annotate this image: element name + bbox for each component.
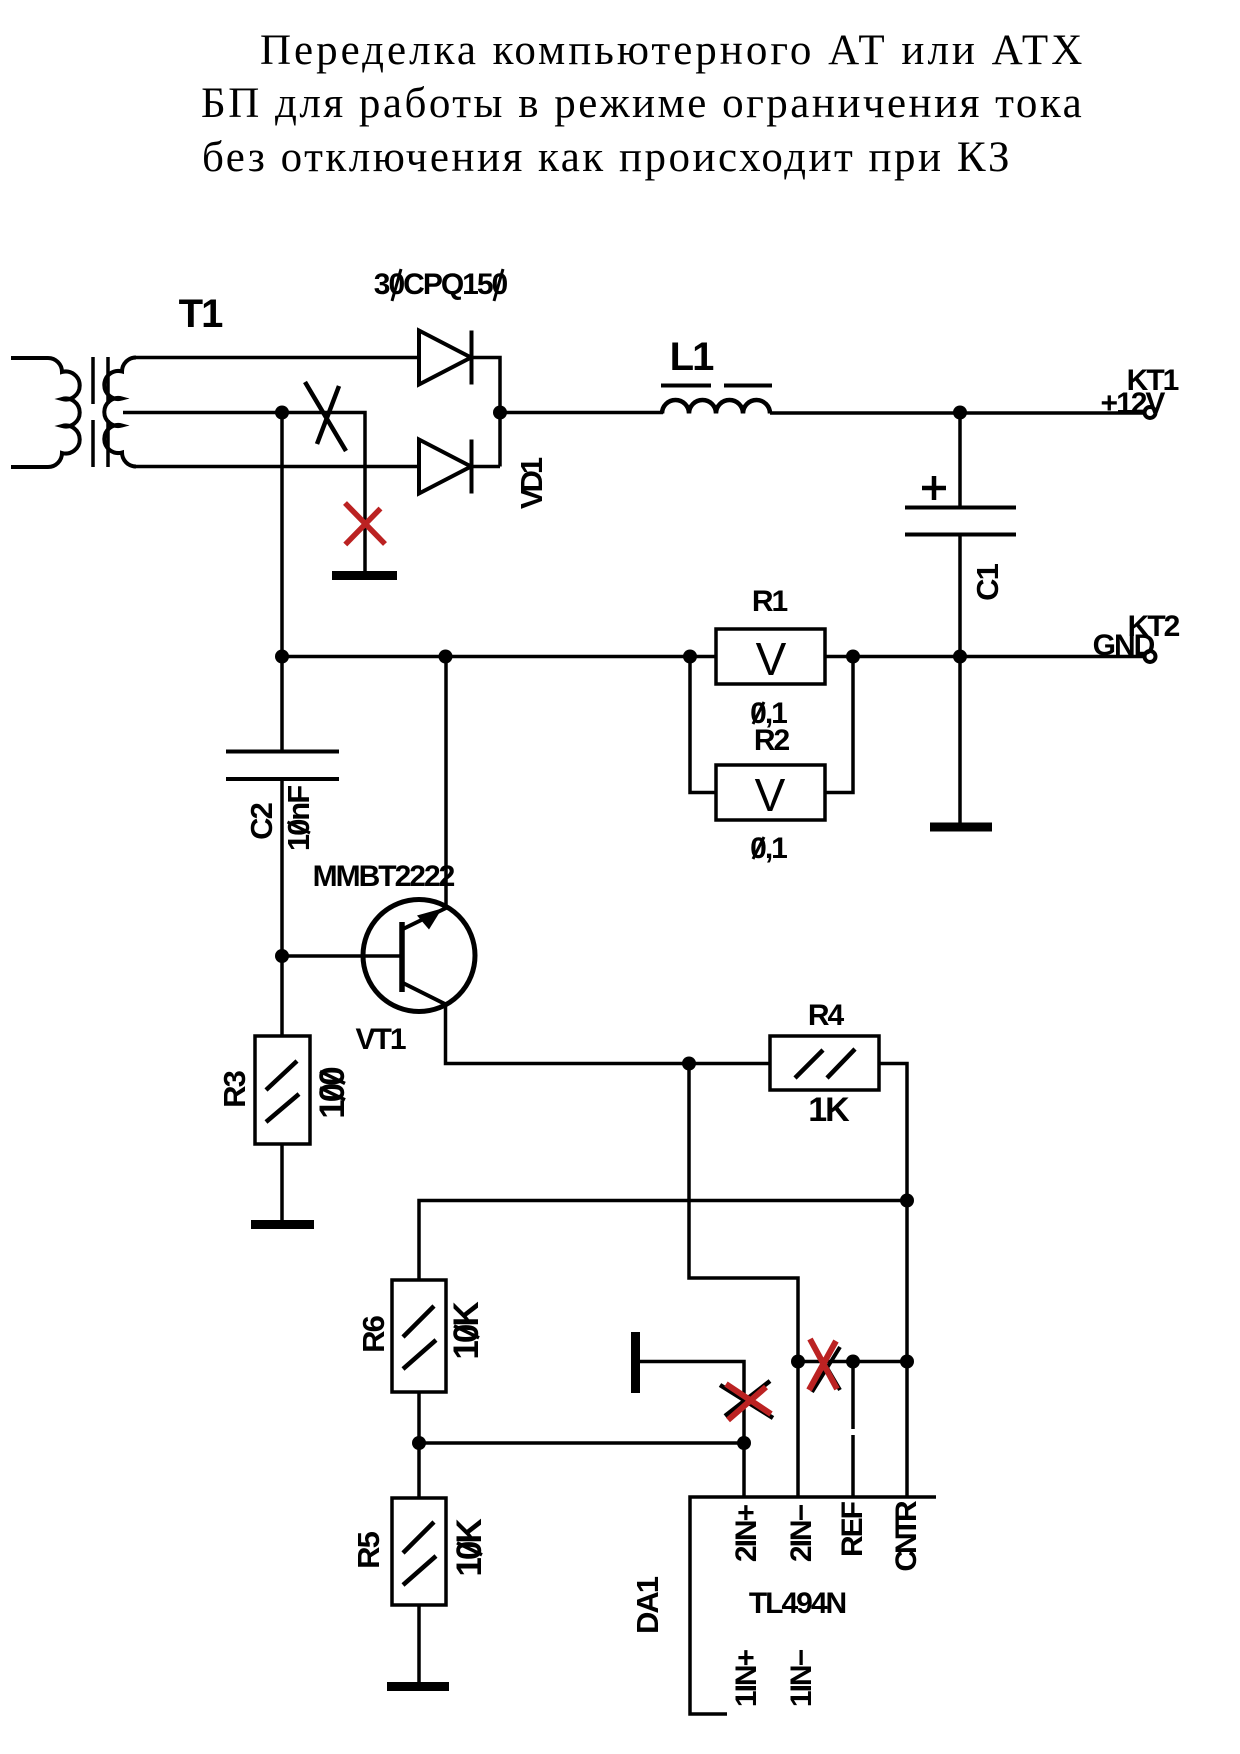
L1 core bars: [661, 384, 772, 388]
resistor R4: [770, 1036, 879, 1090]
node +12V rail / C1 top: [953, 406, 967, 420]
svg-text:VD1: VD1: [514, 457, 549, 509]
pin label 1IN+: [730, 1649, 763, 1707]
transformer T1 primary winding: [11, 358, 80, 467]
wire C1 bottom to ground: [958, 535, 962, 824]
resistor R2: [716, 765, 825, 820]
svg-text:1K: 1K: [808, 1091, 850, 1129]
wire R6 top: [419, 1201, 907, 1281]
svg-text:1IN−: 1IN−: [785, 1649, 818, 1707]
wire collector up: [444, 657, 448, 909]
ground under R3: [251, 1220, 314, 1229]
node 2IN-: [791, 1355, 805, 1369]
svg-text:R3: R3: [217, 1070, 252, 1107]
node R6 top wire joint: [900, 1194, 914, 1208]
svg-text:0,1: 0,1: [750, 832, 787, 865]
node R6-R5: [412, 1436, 426, 1450]
IC DA1 TL494N box: [690, 1497, 936, 1714]
ground under R5: [387, 1682, 449, 1691]
node 2IN+: [737, 1436, 751, 1450]
label VD1: [514, 457, 549, 509]
red X on center tap ground wire: [345, 503, 385, 545]
wire R6 to R5 junction: [417, 1392, 421, 1498]
svg-text:V: V: [756, 633, 787, 685]
transistor VT1: [363, 900, 475, 1012]
svg-text:L1: L1: [670, 335, 714, 379]
wire 2IN+ pin: [742, 1443, 746, 1497]
svg-text:R1: R1: [752, 585, 788, 618]
wire CNTR pin: [905, 1362, 909, 1498]
pin label 2IN-: [785, 1504, 818, 1562]
wire C2 to base/R3: [280, 779, 284, 1036]
svg-text:C1: C1: [970, 563, 1005, 600]
black X on 2IN+ ground wire: [720, 1381, 773, 1418]
capacitor C2: [280, 657, 284, 752]
svg-text:R4: R4: [808, 999, 845, 1032]
svg-text:VT1: VT1: [355, 1023, 405, 1056]
wire emitter down: [446, 1003, 771, 1064]
svg-text:V: V: [755, 769, 786, 821]
pin label REF: [836, 1501, 869, 1557]
svg-text:CNTR: CNTR: [890, 1500, 923, 1572]
wire R2 parallel right: [825, 657, 853, 793]
node base: [275, 949, 289, 963]
title: [201, 27, 1085, 181]
svg-text:2IN+: 2IN+: [730, 1504, 763, 1562]
terminal KT2: [1145, 651, 1156, 662]
svg-text:T1: T1: [179, 292, 223, 336]
svg-text:R6: R6: [356, 1315, 391, 1352]
svg-text:Переделка компьютерного АТ или: Переделка компьютерного АТ или АТХ: [260, 27, 1085, 74]
resistor R1: [716, 629, 825, 684]
transformer T1 secondary winding: [104, 358, 136, 467]
wire center tap: [123, 413, 365, 572]
wire ground to 2IN+ column: [640, 1362, 744, 1444]
svg-text:REF: REF: [836, 1501, 869, 1557]
wire junction to 2IN+: [419, 1441, 744, 1445]
pin label 1IN-: [785, 1649, 818, 1707]
wire L1 to KT1: [770, 411, 1145, 415]
terminal KT1: [1145, 407, 1156, 418]
node center tap: [275, 406, 289, 420]
wire R3 to ground: [280, 1144, 284, 1220]
inductor L1: [662, 400, 770, 414]
resistor R6: [392, 1280, 446, 1392]
svg-text:MMBT2222: MMBT2222: [313, 860, 455, 893]
node GND-R1 left: [683, 650, 697, 664]
red X on 2IN+ ground wire: [726, 1384, 771, 1420]
svg-text:DA1: DA1: [630, 1576, 665, 1634]
ground sideways near IC: [631, 1332, 640, 1393]
svg-text:C2: C2: [244, 803, 279, 839]
svg-text:R5: R5: [351, 1531, 386, 1568]
node REF: [846, 1355, 860, 1369]
wire center tap down: [280, 413, 284, 657]
red X on 2IN- REF segment: [809, 1339, 837, 1390]
svg-text:+12V: +12V: [1101, 387, 1166, 420]
wire R5 to ground: [417, 1605, 421, 1682]
wire REF pin: [851, 1362, 855, 1498]
svg-text:без отключения как происходит: без отключения как происходит при КЗ: [202, 134, 1012, 181]
resistor R5: [392, 1498, 446, 1605]
C1 plus sign: [922, 476, 946, 500]
pin label 2IN+: [730, 1504, 763, 1562]
svg-text:R2: R2: [754, 724, 790, 757]
slashes through zeros of 30CPQ150: [392, 269, 503, 301]
ground under center tap: [332, 571, 397, 580]
svg-text:TL494N: TL494N: [749, 1587, 846, 1620]
wire 2IN- pin: [796, 1362, 800, 1498]
svg-text:GND: GND: [1093, 629, 1155, 662]
svg-text:2IN−: 2IN−: [785, 1504, 818, 1562]
black X on 2IN- REF segment: [812, 1344, 840, 1392]
black X on center tap wire: [305, 382, 346, 451]
label DA1: [630, 1576, 665, 1634]
node diode output: [493, 406, 507, 420]
C1 label: [970, 563, 1005, 600]
ground under C1: [930, 823, 992, 832]
node GND-C1: [953, 650, 967, 664]
GND rail: [282, 655, 1145, 659]
wire secondary top lead: [134, 356, 419, 360]
svg-text:БП для работы в режиме огранич: БП для работы в режиме ограничения тока: [201, 80, 1084, 127]
wire diode cathodes bus: [472, 358, 501, 467]
capacitor C1: [958, 413, 962, 508]
node GND-collector: [439, 650, 453, 664]
transformer T1 core: [93, 357, 108, 467]
VT1 collector arrow: [417, 909, 442, 930]
diode VD1 upper: [419, 331, 472, 385]
resistor R3: [255, 1036, 310, 1144]
diode VD1 lower: [419, 440, 472, 494]
wire secondary bottom lead: [134, 465, 419, 469]
svg-text:1IN+: 1IN+: [730, 1649, 763, 1707]
node GND-tap: [275, 650, 289, 664]
wire base column down to 2IN-: [689, 1064, 798, 1362]
wire R4 right to CNTR column: [879, 1064, 907, 1362]
pin label CNTR: [890, 1500, 923, 1572]
node GND-R1 right: [846, 650, 860, 664]
wire R2 parallel left: [690, 657, 716, 793]
node emitter-R4: [682, 1057, 696, 1071]
wire diode output to L1: [500, 411, 663, 415]
svg-text:10nF: 10nF: [281, 786, 316, 851]
node CNTR: [900, 1355, 914, 1369]
wire 2IN- to CNTR row: [798, 1360, 907, 1364]
